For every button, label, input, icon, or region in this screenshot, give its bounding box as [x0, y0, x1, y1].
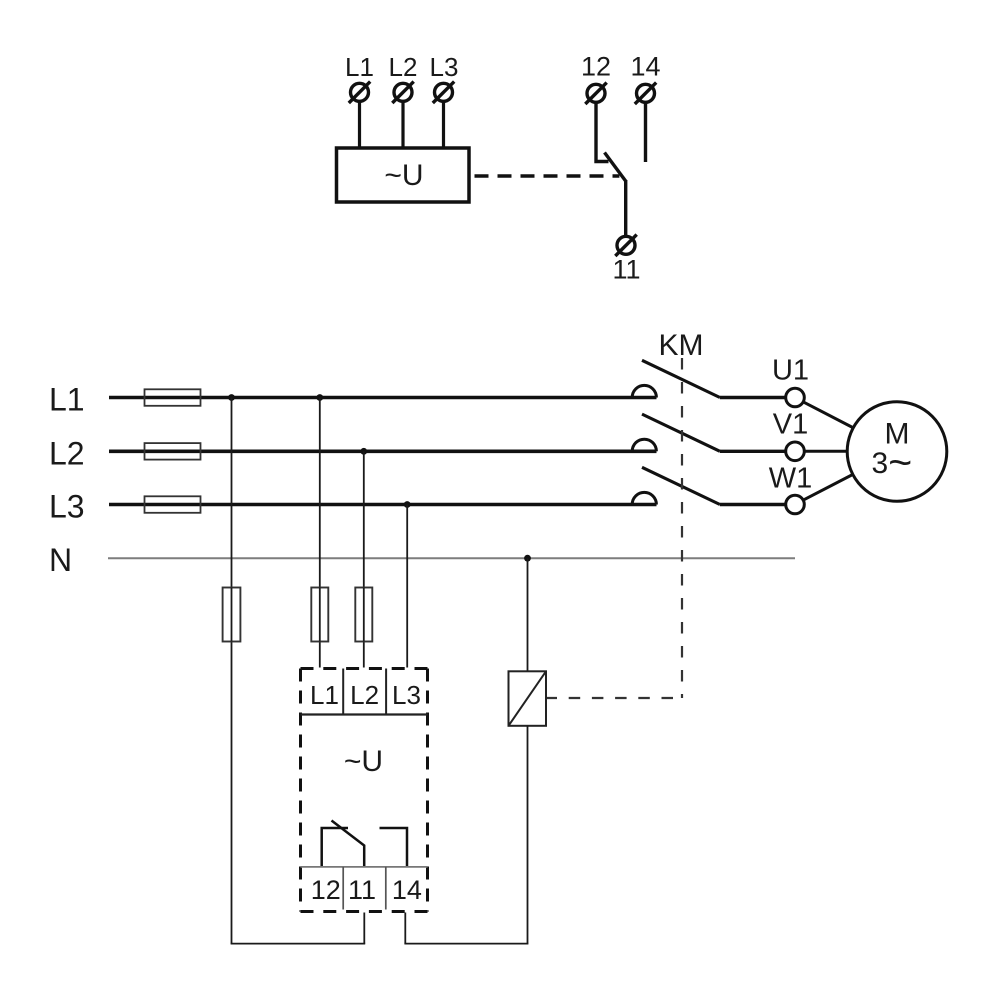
wire 11 down	[363, 913, 365, 944]
fuse F3 (L3)	[145, 496, 201, 513]
dashed KM link horizontal to coil	[546, 697, 683, 699]
device box (dashed) bottom edge	[301, 910, 428, 913]
wire through FV1	[231, 588, 233, 642]
wire KM to W1	[720, 503, 786, 506]
svg-text:12: 12	[311, 875, 341, 905]
fuse FV1 (vertical)	[223, 588, 241, 642]
power line L2	[109, 449, 657, 453]
svg-text:L2: L2	[49, 436, 85, 472]
relay blade 11	[332, 821, 365, 867]
wire bottom right horizontal	[404, 943, 528, 945]
wire W1 to motor	[803, 472, 858, 501]
junction dot L1 tap b	[316, 394, 323, 401]
terminal 11 (slashed circle)	[615, 235, 636, 256]
junction dot L2 tap	[360, 448, 367, 455]
wire bottom left horizontal	[231, 943, 366, 945]
wire L3 terminal to box	[442, 101, 445, 148]
svg-text:11: 11	[612, 255, 640, 285]
fuse FV3 (vertical)	[355, 588, 372, 642]
contactor coil KM	[509, 671, 547, 726]
svg-text:12: 12	[581, 52, 611, 82]
relay body box ~U (top)	[337, 148, 470, 202]
wire from terminal 12 down with tick	[596, 102, 609, 161]
wire L3 tap down	[406, 505, 408, 668]
dashed link box to contact	[475, 174, 620, 178]
KM blade L2	[642, 414, 720, 451]
wire L1 terminal to box	[358, 101, 361, 148]
svg-text:L2: L2	[350, 680, 379, 710]
wire KM to U1	[720, 396, 786, 399]
terminal L2 (slashed circle)	[392, 82, 413, 103]
KM contact arc L1	[632, 385, 656, 397]
wire blade to terminal 11	[624, 180, 627, 236]
wire V1 to motor	[804, 450, 847, 453]
terminal separator L2|L3	[385, 669, 387, 715]
wire through FV3	[363, 588, 365, 642]
svg-text:KM: KM	[659, 329, 704, 362]
wire 14 down	[404, 913, 406, 944]
wire through FV2	[319, 588, 321, 642]
terminal row line (bottom row)	[301, 866, 428, 868]
svg-text:14: 14	[392, 875, 422, 905]
junction dot L1 tap a	[228, 394, 235, 401]
terminal V1	[786, 442, 805, 461]
wire L2 tap down	[363, 451, 365, 667]
terminal L3 (slashed circle)	[433, 82, 454, 103]
wire L1 tap b down	[319, 398, 321, 668]
KM contact arc L2	[632, 439, 656, 451]
svg-text:L3: L3	[392, 680, 421, 710]
terminal U1	[786, 388, 805, 407]
relay fixed contact 12	[322, 828, 348, 867]
device box (dashed) right edge	[426, 669, 429, 912]
svg-text:L3: L3	[430, 52, 459, 82]
wire L1 tap a down	[231, 398, 233, 944]
wire U1 to motor	[803, 402, 858, 431]
svg-text:N: N	[49, 542, 72, 578]
svg-text:~U: ~U	[384, 159, 423, 192]
terminal 12 (slashed circle)	[585, 83, 606, 104]
svg-text:L3: L3	[49, 489, 85, 525]
terminal W1	[786, 495, 805, 514]
wire L2 terminal to box	[401, 101, 404, 148]
svg-text:L2: L2	[389, 52, 418, 82]
svg-text:14: 14	[630, 52, 660, 82]
svg-text:U1: U1	[772, 355, 809, 387]
power line L3	[109, 503, 657, 507]
terminal separator L1|L2	[342, 669, 344, 715]
contact blade (top changeover)	[605, 153, 627, 182]
junction dot N tap	[524, 555, 531, 562]
wire KM to V1	[720, 450, 786, 453]
neutral line N	[108, 557, 795, 559]
svg-text:L1: L1	[310, 680, 339, 710]
dashed KM link vertical	[681, 358, 683, 698]
fuse FV2 (vertical)	[311, 588, 328, 642]
junction dot L3 tap	[404, 501, 411, 508]
svg-text:W1: W1	[769, 463, 813, 495]
relay fixed contact 14	[380, 828, 408, 867]
terminal separator 12|11	[342, 867, 344, 910]
power line L1	[109, 396, 657, 400]
terminal 14 (slashed circle)	[635, 83, 656, 104]
KM blade L3	[642, 467, 720, 504]
KM blade L1	[642, 360, 720, 397]
svg-text:L1: L1	[49, 382, 85, 418]
wire N tap down to coil	[527, 558, 529, 671]
wire from terminal 14 down	[644, 102, 647, 162]
wire coil bottom down	[527, 726, 529, 944]
svg-text:V1: V1	[773, 409, 808, 441]
terminal separator 11|14	[385, 867, 387, 910]
svg-text:~U: ~U	[344, 745, 383, 778]
svg-text:L1: L1	[345, 52, 374, 82]
fuse F2 (L2)	[145, 443, 201, 460]
KM contact arc L3	[632, 492, 656, 504]
device box (dashed) left edge	[299, 669, 302, 912]
device box (dashed) top edge	[301, 667, 428, 670]
terminal row bottom line (top row)	[301, 713, 428, 715]
terminal L1 (slashed circle)	[349, 82, 370, 103]
motor M	[847, 402, 947, 502]
coil diagonal	[509, 671, 547, 726]
fuse F1 (L1)	[145, 389, 201, 406]
svg-text:11: 11	[348, 875, 376, 905]
